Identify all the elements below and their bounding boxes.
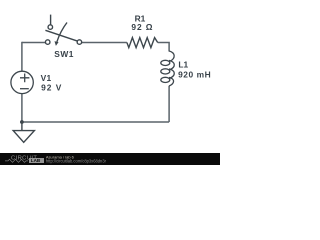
wire resistor right to top-right corner, down to inductor top: [158, 43, 169, 52]
wire inductor bottom to bottom-right corner: [168, 86, 170, 122]
svg-text:LAB: LAB: [31, 158, 41, 163]
SW1 blade: [45, 30, 77, 41]
inductor L1 coil: [161, 51, 174, 86]
SW1 actuation arrow: [57, 23, 67, 42]
SW1 right terminal circle: [77, 40, 82, 45]
svg-text:92 Ω: 92 Ω: [131, 22, 153, 32]
wire top-left horizontal (top corner to SW1 left terminal): [22, 42, 45, 44]
footer logo LAB block: [29, 158, 44, 163]
svg-text:http://circuitlab.com/c8p3x68d: http://circuitlab.com/c8p3x68dn3r: [46, 158, 107, 163]
SW1 arrowhead: [55, 41, 59, 46]
wire bottom horizontal: [22, 121, 169, 123]
svg-text:920 mH: 920 mH: [178, 70, 211, 80]
switch SW1: [45, 15, 81, 45]
resistor R1 zigzag: [127, 38, 158, 48]
node junction dot: [20, 120, 24, 124]
wire SW1 right terminal to resistor left: [82, 42, 127, 44]
minus sign: [20, 88, 29, 90]
footer logo zigzag: [5, 159, 28, 162]
svg-text:92 V: 92 V: [41, 83, 62, 93]
ground symbol: [13, 122, 34, 142]
SW1 top terminal circle: [48, 25, 53, 30]
wire V1 bottom to junction: [21, 94, 23, 123]
footer bar: [0, 153, 220, 165]
plus sign: [20, 74, 29, 83]
svg-text:L1: L1: [178, 59, 188, 69]
svg-text:SW1: SW1: [54, 49, 74, 59]
SW1 top stub: [50, 15, 52, 25]
wire left vertical (top corner down to V1 top): [21, 42, 23, 71]
SW1 left terminal circle: [45, 40, 50, 45]
voltage source V1: [11, 71, 33, 93]
